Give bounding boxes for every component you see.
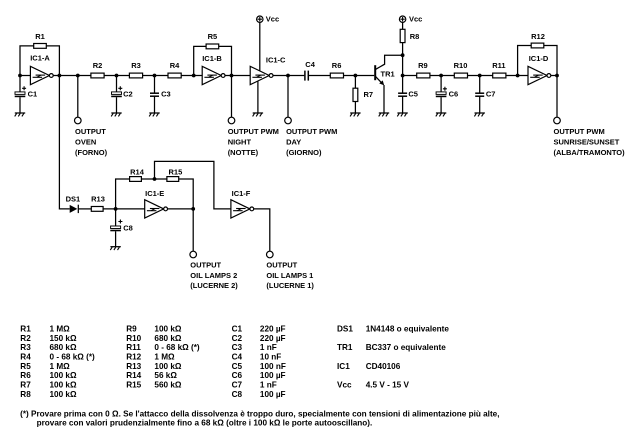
resistor R9: [417, 73, 430, 78]
svg-text:C5: C5: [408, 90, 418, 99]
svg-text:OUTPUT: OUTPUT: [190, 261, 221, 270]
node R14 R15 junction: [153, 177, 157, 181]
svg-text:R2: R2: [93, 61, 103, 70]
svg-text:R5: R5: [20, 362, 31, 371]
svg-text:1 nF: 1 nF: [260, 381, 277, 390]
resistor R11: [493, 73, 506, 78]
svg-text:R1: R1: [35, 32, 45, 41]
capacitor C7: [475, 76, 495, 114]
diode DS1: [66, 194, 81, 213]
svg-text:C1: C1: [232, 325, 243, 334]
capacitor C6: [436, 76, 458, 114]
terminal OUTPUT OIL LAMPS 1: [267, 251, 274, 258]
svg-text:0 - 68 kΩ (*): 0 - 68 kΩ (*): [50, 353, 96, 362]
ground C2: [111, 113, 122, 116]
node IC1-A input: [18, 74, 22, 78]
svg-text:10 nF: 10 nF: [260, 353, 281, 362]
node collector R8: [401, 53, 405, 57]
svg-text:IC1: IC1: [337, 362, 350, 371]
node C2 tap: [115, 74, 119, 78]
svg-text:IC1-D: IC1-D: [529, 54, 549, 63]
wire day terminal drop: [287, 76, 289, 118]
svg-text:Vcc: Vcc: [409, 14, 422, 23]
svg-text:R6: R6: [20, 371, 31, 380]
svg-text:C7: C7: [232, 381, 243, 390]
svg-text:C2: C2: [232, 334, 243, 343]
svg-text:1 MΩ: 1 MΩ: [50, 362, 71, 371]
resistor R3: [129, 73, 142, 78]
svg-text:R3: R3: [20, 343, 31, 352]
wire R10 to R11: [468, 75, 493, 77]
svg-text:R9: R9: [418, 61, 428, 70]
node day tap: [286, 74, 290, 78]
svg-text:100 kΩ: 100 kΩ: [154, 325, 181, 334]
node IC1-D output: [555, 74, 559, 78]
resistor R12: [531, 43, 544, 48]
ground TR1 emitter: [379, 113, 390, 116]
node IC1-B output: [230, 74, 234, 78]
svg-text:100 µF: 100 µF: [260, 390, 286, 399]
svg-text:R5: R5: [208, 32, 218, 41]
svg-text:TR1: TR1: [337, 343, 353, 352]
svg-text:1N4148 o equivalente: 1N4148 o equivalente: [366, 325, 450, 334]
svg-text:OUTPUT PWM: OUTPUT PWM: [286, 127, 337, 136]
wire R6 to TR1 base: [344, 75, 375, 77]
resistor R5: [206, 44, 219, 49]
svg-text:OIL LAMPS 2: OIL LAMPS 2: [190, 271, 237, 280]
op-amp IC1-F: [231, 189, 254, 218]
parts list column 3: [232, 325, 286, 399]
wire R13 to IC1-E: [103, 208, 145, 210]
svg-text:R9: R9: [126, 325, 137, 334]
svg-text:R3: R3: [131, 61, 141, 70]
wire IC1-F output: [254, 209, 270, 251]
wire IC1-D output: [551, 75, 557, 77]
svg-text:Vcc: Vcc: [337, 381, 352, 390]
label OUTPUT PWM DAY (GIORNO): [286, 127, 337, 157]
wire R3 to R4: [143, 75, 168, 77]
svg-text:(NOTTE): (NOTTE): [228, 148, 259, 157]
node C3 tap: [153, 74, 157, 78]
parts list column 4: [337, 325, 449, 390]
svg-text:DS1: DS1: [337, 325, 353, 334]
wire IC1-A output to R2: [53, 75, 91, 77]
svg-text:IC1-C: IC1-C: [266, 56, 286, 65]
svg-text:IC1-B: IC1-B: [202, 54, 222, 63]
svg-text:DS1: DS1: [66, 194, 81, 203]
svg-text:(*) Provare prima con 0 Ω. Se: (*) Provare prima con 0 Ω. Se l'attacco …: [20, 410, 499, 419]
svg-text:100 nF: 100 nF: [260, 362, 286, 371]
svg-text:C8: C8: [123, 223, 133, 232]
wire R5 to IC1-B output: [219, 46, 232, 75]
wire IC1-C ground pin: [257, 81, 259, 113]
svg-text:OUTPUT PWM: OUTPUT PWM: [554, 127, 605, 136]
svg-text:R7: R7: [20, 381, 31, 390]
wire junction to IC1-F input: [155, 161, 231, 209]
ground R7: [350, 113, 361, 116]
transistor TR1: [375, 55, 402, 113]
power Vcc IC1-C: [257, 14, 280, 70]
wire R9 to R10: [430, 75, 454, 77]
svg-text:C5: C5: [232, 362, 243, 371]
resistor R14: [130, 177, 142, 182]
svg-text:C4: C4: [232, 353, 243, 362]
wire R1 to output: [46, 46, 59, 76]
ground IC1-C: [253, 113, 264, 116]
wire IC1-C output to C4: [273, 75, 304, 77]
svg-text:C1: C1: [28, 90, 38, 99]
wire R5 feedback loop: [194, 46, 206, 75]
svg-text:R15: R15: [169, 168, 183, 177]
svg-text:56 kΩ: 56 kΩ: [154, 371, 177, 380]
svg-text:OVEN: OVEN: [75, 138, 96, 147]
ground C3: [149, 113, 160, 116]
svg-text:1 nF: 1 nF: [260, 343, 277, 352]
resistor R10: [454, 73, 467, 78]
op-amp IC1-A: [30, 53, 53, 84]
svg-text:C8: C8: [232, 390, 243, 399]
svg-text:(ALBA/TRAMONTO): (ALBA/TRAMONTO): [554, 148, 626, 157]
svg-text:R4: R4: [170, 61, 180, 70]
wire oil lamps 2 drop: [192, 209, 194, 251]
svg-text:SUNRISE/SUNSET: SUNRISE/SUNSET: [554, 138, 620, 147]
wire oven terminal drop: [77, 76, 79, 118]
svg-text:100 µF: 100 µF: [260, 371, 286, 380]
wire R4 to IC1-B: [181, 75, 202, 77]
wire R15 to IC1-E output: [179, 179, 194, 209]
node TR1 base / R7: [354, 74, 358, 78]
svg-text:R6: R6: [332, 61, 342, 70]
resistor R2: [91, 73, 104, 78]
svg-text:R14: R14: [126, 371, 141, 380]
wire IC1-A input segment: [20, 75, 30, 77]
capacitor C8: [110, 209, 132, 247]
node IC1-D input: [516, 74, 520, 78]
wire collector to R9: [403, 75, 417, 77]
label OUTPUT PWM NIGHT (NOTTE): [228, 127, 279, 157]
wire R11 to IC1-D: [506, 75, 528, 77]
wire night terminal drop: [231, 76, 233, 118]
wire IC1-E output: [168, 208, 194, 210]
svg-text:560 kΩ: 560 kΩ: [154, 381, 181, 390]
svg-text:150 kΩ: 150 kΩ: [50, 334, 77, 343]
label OUTPUT PWM SUNRISE/SUNSET (ALBA/TRAMONTO): [554, 127, 626, 157]
op-amp IC1-C: [250, 56, 286, 85]
svg-text:100 kΩ: 100 kΩ: [50, 381, 77, 390]
svg-text:R14: R14: [130, 168, 145, 177]
svg-text:100 kΩ: 100 kΩ: [154, 362, 181, 371]
svg-text:220 µF: 220 µF: [260, 334, 286, 343]
wire sunrise terminal drop: [556, 76, 558, 118]
capacitor C3: [150, 76, 171, 114]
resistor R4: [168, 73, 181, 78]
capacitor C2: [111, 76, 132, 114]
svg-text:1 MΩ: 1 MΩ: [50, 325, 71, 334]
svg-text:C3: C3: [161, 90, 171, 99]
svg-text:R11: R11: [126, 343, 141, 352]
op-amp IC1-D: [528, 54, 551, 85]
svg-text:R12: R12: [531, 32, 545, 41]
svg-text:BC337 o equivalente: BC337 o equivalente: [366, 343, 447, 352]
terminal OUTPUT OVEN: [75, 117, 82, 124]
node IC1-B input: [192, 74, 196, 78]
svg-text:OIL LAMPS 1: OIL LAMPS 1: [266, 271, 313, 280]
svg-text:C6: C6: [449, 90, 459, 99]
terminal OUTPUT PWM DAY: [285, 117, 292, 124]
svg-text:provare con valori prudenzialm: provare con valori prudenzialmente fino …: [37, 419, 373, 428]
svg-text:IC1-F: IC1-F: [232, 189, 251, 198]
op-amp IC1-E: [145, 189, 168, 218]
wire R1 feedback loop: [20, 46, 34, 76]
svg-text:C4: C4: [305, 60, 315, 69]
resistor R15: [167, 177, 179, 182]
resistor R7: [353, 76, 373, 114]
resistor R8: [400, 29, 419, 42]
svg-text:R15: R15: [126, 381, 141, 390]
terminal OUTPUT PWM SUNRISE: [554, 117, 561, 124]
svg-text:100 kΩ: 100 kΩ: [50, 371, 77, 380]
svg-text:Vcc: Vcc: [266, 14, 279, 23]
node IC1-E input: [114, 207, 118, 211]
svg-text:C7: C7: [486, 90, 496, 99]
svg-text:R13: R13: [126, 362, 141, 371]
ground C5: [397, 113, 408, 116]
footnote: [20, 410, 499, 428]
label OUTPUT OIL LAMPS 1 (LUCERNE 1): [266, 261, 314, 290]
svg-text:R8: R8: [410, 32, 420, 41]
svg-text:R1: R1: [20, 325, 31, 334]
parts list column 2: [126, 325, 200, 390]
svg-text:680 kΩ: 680 kΩ: [50, 343, 77, 352]
node IC1-A output: [58, 74, 62, 78]
ground C6: [436, 113, 447, 116]
svg-text:OUTPUT: OUTPUT: [266, 261, 297, 270]
svg-text:1 MΩ: 1 MΩ: [154, 353, 175, 362]
wire R12 feedback loop: [518, 46, 532, 76]
svg-text:(GIORNO): (GIORNO): [286, 148, 322, 157]
resistor R1: [34, 44, 47, 49]
svg-text:(FORNO): (FORNO): [75, 148, 108, 157]
wire IC1-A output drop to row 2: [59, 76, 69, 209]
wire C4 to R6: [309, 75, 330, 77]
svg-text:R8: R8: [20, 390, 31, 399]
svg-text:C6: C6: [232, 371, 243, 380]
node C6 tap: [439, 74, 443, 78]
svg-text:220 µF: 220 µF: [260, 325, 286, 334]
ground C7: [474, 113, 485, 116]
svg-text:R12: R12: [126, 353, 141, 362]
svg-text:R7: R7: [364, 90, 374, 99]
svg-text:(LUCERNE 2): (LUCERNE 2): [190, 281, 238, 290]
svg-text:TR1: TR1: [381, 69, 395, 78]
capacitor C4: [305, 60, 316, 81]
ground C8: [110, 247, 121, 250]
svg-text:OUTPUT PWM: OUTPUT PWM: [228, 127, 279, 136]
power Vcc R8: [399, 14, 422, 29]
label OUTPUT OVEN (FORNO): [75, 127, 108, 157]
node C7 tap: [478, 74, 482, 78]
svg-text:R2: R2: [20, 334, 31, 343]
node output oven tap: [76, 74, 80, 78]
wire R8 to collector node: [402, 43, 404, 76]
terminal OUTPUT OIL LAMPS 2: [190, 251, 197, 258]
wire R14 to junction: [141, 178, 167, 180]
svg-text:R11: R11: [492, 61, 505, 70]
svg-text:C3: C3: [232, 343, 243, 352]
svg-text:IC1-A: IC1-A: [30, 53, 50, 62]
svg-text:C2: C2: [123, 90, 133, 99]
parts list column 1: [20, 325, 95, 399]
svg-text:0 - 68 kΩ (*): 0 - 68 kΩ (*): [154, 343, 200, 352]
svg-text:NIGHT: NIGHT: [228, 138, 252, 147]
svg-text:R10: R10: [126, 334, 141, 343]
wire to R14: [116, 179, 130, 209]
label OUTPUT OIL LAMPS 2 (LUCERNE 2): [190, 261, 238, 290]
svg-text:CD40106: CD40106: [366, 362, 401, 371]
svg-text:DAY: DAY: [286, 138, 301, 147]
ground C1: [15, 113, 26, 116]
capacitor C1: [15, 76, 37, 114]
resistor R6: [330, 73, 343, 78]
wire DS1 to R13: [78, 208, 91, 210]
resistor R13: [91, 207, 103, 212]
node IC1-E output: [191, 207, 195, 211]
svg-text:680 kΩ: 680 kΩ: [154, 334, 181, 343]
wire R12 to IC1-D output: [544, 46, 557, 76]
svg-text:R13: R13: [91, 194, 105, 203]
svg-text:R10: R10: [454, 61, 468, 70]
svg-text:R4: R4: [20, 353, 31, 362]
svg-text:(LUCERNE 1): (LUCERNE 1): [266, 281, 314, 290]
wire IC1-B output to IC1-C: [225, 75, 250, 77]
node C5 tap: [401, 74, 405, 78]
capacitor C5: [398, 76, 418, 114]
svg-text:4.5 V - 15 V: 4.5 V - 15 V: [366, 381, 410, 390]
svg-text:100 kΩ: 100 kΩ: [50, 390, 77, 399]
op-amp IC1-B: [202, 54, 225, 85]
terminal OUTPUT PWM NIGHT: [228, 117, 235, 124]
svg-text:OUTPUT: OUTPUT: [75, 127, 106, 136]
wire R2 to R3: [104, 75, 129, 77]
svg-text:IC1-E: IC1-E: [145, 189, 164, 198]
